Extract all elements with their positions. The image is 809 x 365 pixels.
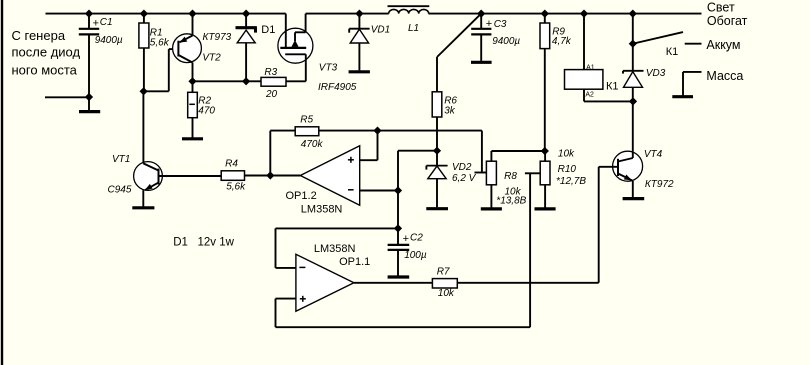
resistor R5 bbox=[270, 127, 482, 176]
svg-text:Аккум: Аккум bbox=[706, 38, 740, 52]
junction node C3 top on output rail bbox=[477, 10, 485, 18]
resistor R3 bbox=[246, 63, 306, 87]
svg-text:VT3: VT3 bbox=[319, 63, 338, 74]
junction node R9 top on output rail bbox=[541, 10, 549, 18]
junction node OP1.2 minus input bbox=[394, 186, 402, 194]
junction node VD3 branch on output rail bbox=[629, 10, 637, 18]
transistor VT4 bbox=[613, 151, 643, 197]
svg-text:20: 20 bbox=[265, 89, 278, 100]
resistor R8 trimmer bbox=[486, 151, 544, 208]
op-amp U OP1.2 bbox=[300, 131, 398, 206]
transistor VT1 bbox=[134, 162, 222, 207]
ground below C3 bbox=[471, 61, 492, 64]
wire bottom feedback bbox=[276, 299, 531, 328]
ground below VT1 bbox=[132, 206, 154, 209]
resistor R1 bbox=[139, 14, 149, 92]
transistor VT2 bbox=[173, 14, 202, 82]
svg-text:R3: R3 bbox=[264, 67, 277, 78]
junction node R6 bottom / VD2 cathode bbox=[433, 147, 441, 155]
junction node switch K1 pivot bbox=[629, 40, 637, 48]
svg-text:С генера: С генера bbox=[12, 28, 66, 43]
wire VT2 base to R1 node bbox=[144, 49, 179, 91]
svg-text:OP1.2: OP1.2 bbox=[286, 190, 317, 202]
svg-text:К1: К1 bbox=[606, 81, 619, 93]
junction node R1 bottom / VT2 base / VT1 collector bbox=[140, 87, 148, 95]
wire top rail mid segment bbox=[306, 13, 389, 15]
svg-text:Масса: Масса bbox=[706, 69, 743, 83]
resistor R9 bbox=[540, 14, 550, 151]
svg-text:R7: R7 bbox=[437, 267, 450, 278]
ground below R10 bbox=[535, 207, 556, 210]
svg-text:+: + bbox=[403, 233, 409, 245]
svg-text:L1: L1 bbox=[408, 23, 419, 34]
svg-text:К1: К1 bbox=[666, 46, 679, 58]
svg-text:*13,8В: *13,8В bbox=[496, 196, 526, 207]
wire op12 minus net bbox=[398, 151, 437, 229]
capacitor C2 bbox=[388, 228, 410, 275]
junction node R4 right / R5 left / OP1.2 output bbox=[266, 171, 274, 179]
svg-text:*12,7В: *12,7В bbox=[556, 176, 586, 187]
wire top rail right segment bbox=[429, 13, 702, 15]
junction node C1 bottom to ground bbox=[85, 93, 93, 101]
junction node relay K1 A1 on output rail bbox=[580, 10, 588, 18]
ground below VD2 bbox=[426, 207, 448, 210]
switch K1 bbox=[633, 32, 702, 44]
svg-text:C3: C3 bbox=[494, 19, 507, 30]
svg-text:470: 470 bbox=[198, 106, 215, 117]
junction node VT2 collector / R2 top bbox=[188, 77, 196, 85]
inductor L1 bbox=[388, 6, 430, 13]
svg-text:9400µ: 9400µ bbox=[95, 35, 123, 46]
svg-text:Свет: Свет bbox=[707, 0, 735, 14]
junction node relay K1 A2 / VD3 anode bbox=[629, 97, 637, 105]
svg-text:после диод: после диод bbox=[12, 45, 81, 60]
junction node VD1 cathode on output rail bbox=[355, 10, 363, 18]
wire op11 output bbox=[354, 282, 433, 284]
svg-text:IRF4905: IRF4905 bbox=[318, 82, 357, 93]
svg-text:100µ: 100µ bbox=[404, 250, 427, 261]
svg-text:OP1.1: OP1.1 bbox=[339, 256, 370, 268]
svg-text:10k: 10k bbox=[438, 288, 455, 299]
svg-text:C2: C2 bbox=[410, 233, 423, 244]
ground below C1 bbox=[79, 97, 100, 112]
capacitor C1 bbox=[79, 14, 99, 97]
ground below VT4 bbox=[623, 197, 645, 200]
svg-text:R8: R8 bbox=[504, 171, 517, 182]
wire diagonal to R6 bbox=[437, 14, 481, 92]
svg-text:C945: C945 bbox=[108, 185, 132, 196]
svg-text:R10: R10 bbox=[558, 164, 577, 175]
svg-text:VT2: VT2 bbox=[202, 53, 221, 64]
resistor R7 bbox=[432, 279, 598, 288]
svg-text:C1: C1 bbox=[100, 17, 113, 28]
svg-text:D1 12v 1w: D1 12v 1w bbox=[173, 236, 234, 248]
svg-text:+: + bbox=[486, 18, 492, 30]
svg-text:VT1: VT1 bbox=[112, 154, 130, 165]
svg-text:ного моста: ного моста bbox=[12, 63, 78, 78]
svg-text:5,6k: 5,6k bbox=[150, 38, 170, 49]
ground below R8 bbox=[481, 207, 502, 210]
svg-text:5,6k: 5,6k bbox=[226, 182, 246, 193]
wire R8 wiper riser bbox=[475, 131, 487, 173]
svg-text:КТ973: КТ973 bbox=[203, 32, 232, 43]
junction node C2 top / OP1.1 minus net bbox=[394, 224, 402, 232]
svg-text:A2: A2 bbox=[585, 92, 594, 99]
wire node to VT1 collector bbox=[142, 91, 144, 162]
ground below R2 bbox=[182, 137, 203, 140]
svg-text:VD1: VD1 bbox=[371, 24, 390, 35]
svg-text:+: + bbox=[93, 18, 99, 30]
op-amp U OP1.1 bbox=[276, 228, 399, 311]
svg-text:R4: R4 bbox=[225, 159, 238, 170]
junction node D1 anode / R3 left bbox=[242, 77, 250, 85]
frame border left bbox=[1, 0, 3, 365]
svg-text:3k: 3k bbox=[444, 105, 456, 116]
svg-text:Обогат: Обогат bbox=[707, 14, 748, 28]
junction node R9 bottom / R8 top / R10 top bbox=[541, 147, 549, 155]
junction node R1 top on +12V rail bbox=[140, 10, 148, 18]
svg-text:470k: 470k bbox=[301, 139, 324, 150]
ground below VD1 bbox=[349, 70, 370, 73]
wire top rail left segment bbox=[46, 13, 286, 15]
svg-text:4,7k: 4,7k bbox=[552, 36, 572, 47]
wire VD3 branch bbox=[632, 14, 634, 44]
ground below C2 bbox=[388, 275, 410, 278]
junction node D1 cathode on +12V rail bbox=[242, 10, 250, 18]
resistor R4 bbox=[221, 171, 300, 181]
junction node C1 top on +12V rail bbox=[85, 10, 93, 18]
wire VT4 base riser bbox=[599, 167, 618, 283]
svg-text:R5: R5 bbox=[300, 115, 313, 126]
resistor R10 trimmer bbox=[525, 151, 550, 327]
junction node OP1.2 plus input on R5 net bbox=[373, 127, 381, 135]
svg-text:A1: A1 bbox=[586, 64, 595, 71]
zener D1 bbox=[236, 14, 257, 82]
junction node VT2 emitter on +12V rail bbox=[188, 10, 196, 18]
svg-text:VD2: VD2 bbox=[452, 162, 472, 173]
resistor R2 bbox=[188, 81, 198, 137]
svg-text:VD3: VD3 bbox=[646, 68, 666, 79]
wire VT2 collector rail bbox=[193, 80, 247, 82]
ground near Macca bbox=[672, 72, 701, 97]
svg-text:LM358N: LM358N bbox=[301, 204, 343, 216]
zener VD2 bbox=[426, 151, 447, 208]
svg-text:6,2 V: 6,2 V bbox=[452, 173, 477, 184]
svg-text:VT4: VT4 bbox=[644, 149, 663, 160]
capacitor C3 bbox=[471, 14, 491, 61]
diode VD1 bbox=[349, 14, 369, 71]
svg-text:LM358N: LM358N bbox=[314, 243, 356, 255]
svg-text:9400µ: 9400µ bbox=[492, 36, 520, 47]
resistor R6 bbox=[432, 92, 442, 151]
svg-text:10k: 10k bbox=[558, 149, 575, 160]
transistor U VT3 mosfet bbox=[278, 14, 313, 64]
wire stub bottom-left bbox=[45, 96, 89, 98]
diode VD3 bbox=[623, 44, 644, 152]
svg-text:КТ972: КТ972 bbox=[645, 179, 674, 190]
svg-text:D1: D1 bbox=[261, 24, 275, 36]
relay coil K1 bbox=[565, 14, 634, 102]
